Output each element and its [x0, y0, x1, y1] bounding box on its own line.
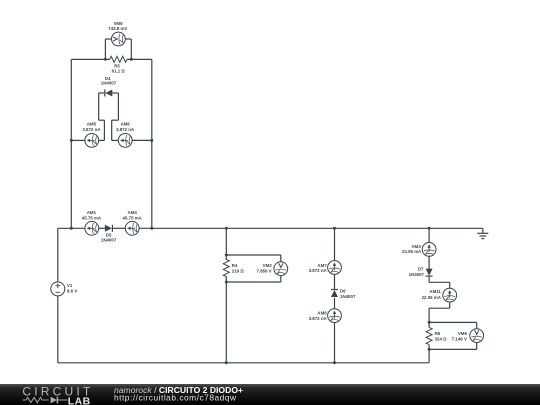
svg-text:D7: D7 [418, 266, 424, 271]
svg-text:45.75 mA: 45.75 mA [123, 215, 143, 220]
svg-text:AM11: AM11 [429, 289, 441, 294]
svg-text:219 Ω: 219 Ω [232, 268, 245, 273]
svg-text:R6: R6 [435, 331, 441, 336]
svg-text:1N4007: 1N4007 [340, 294, 356, 299]
svg-text:AM8: AM8 [317, 311, 327, 316]
svg-text:22.06 mA: 22.06 mA [422, 295, 442, 300]
svg-text:61.1 Ω: 61.1 Ω [112, 69, 126, 74]
svg-text:45.75 mA: 45.75 mA [82, 215, 102, 220]
svg-text:3.872 nA: 3.872 nA [309, 316, 328, 321]
svg-text:8.6 V: 8.6 V [67, 288, 77, 293]
svg-text:1N4007: 1N4007 [101, 238, 117, 243]
svg-text:7.146 V: 7.146 V [452, 336, 467, 341]
svg-text:1N4007: 1N4007 [409, 272, 425, 277]
svg-text:7.856 V: 7.856 V [257, 268, 272, 273]
svg-text:LAB: LAB [68, 395, 91, 405]
svg-text:3.872 nA: 3.872 nA [82, 127, 101, 132]
svg-text:22.06 mA: 22.06 mA [402, 249, 422, 254]
svg-text:http://circuitlab.com/c78adqw: http://circuitlab.com/c78adqw [114, 393, 237, 403]
svg-text:VM6: VM6 [458, 331, 468, 336]
svg-text:AM7: AM7 [317, 263, 327, 268]
svg-text:324 Ω: 324 Ω [435, 336, 448, 341]
svg-text:743.8 mV: 743.8 mV [108, 26, 127, 31]
svg-text:3.872 nA: 3.872 nA [309, 268, 328, 273]
svg-text:3.872 nA: 3.872 nA [116, 127, 135, 132]
svg-text:1N4007: 1N4007 [101, 81, 117, 86]
svg-text:D6: D6 [340, 289, 346, 294]
svg-text:V1: V1 [67, 283, 73, 288]
